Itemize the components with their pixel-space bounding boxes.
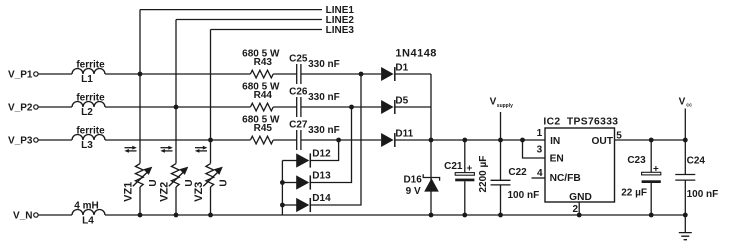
svg-text:LINE3: LINE3 xyxy=(326,25,355,36)
capacitor C25 330 nF xyxy=(289,53,340,84)
wire D12-D14 anode bus xyxy=(281,161,283,216)
junction bus3/V_P3 xyxy=(208,138,213,143)
svg-text:OUT: OUT xyxy=(591,136,613,147)
capacitor C26 330 nF xyxy=(289,86,340,117)
junction C21/V_N xyxy=(462,213,467,218)
terminal V_P3 xyxy=(34,138,38,142)
svg-text:22 µF: 22 µF xyxy=(621,187,647,198)
svg-text:4: 4 xyxy=(537,168,543,179)
wire V_supply tick xyxy=(500,112,502,140)
svg-text:C23: C23 xyxy=(627,155,646,166)
wire LINE2 horizontal xyxy=(176,19,322,21)
svg-text:ferrite: ferrite xyxy=(76,92,105,103)
IC IC2 TPS76333 xyxy=(543,116,618,202)
svg-text:D12: D12 xyxy=(312,149,331,160)
svg-text:IN: IN xyxy=(550,136,560,147)
svg-text:R45: R45 xyxy=(254,123,273,134)
wire D14 cathode to row1 xyxy=(310,74,361,205)
wire D5 cathode xyxy=(395,106,431,108)
wire LINE3 horizontal xyxy=(211,29,323,31)
resistor R43 xyxy=(250,70,273,78)
svg-text:EN: EN xyxy=(550,153,564,164)
bidirectional arrows VZ3 xyxy=(195,146,207,153)
varistor VZ1 xyxy=(123,164,159,202)
inductor L4 4 mH xyxy=(72,210,105,215)
bidirectional arrows VZ2 xyxy=(160,146,172,153)
svg-text:100 nF: 100 nF xyxy=(687,189,719,200)
wire V_N to L4 xyxy=(38,214,72,216)
varistor VZ3 xyxy=(193,164,229,202)
wire V_P2 to L2 xyxy=(38,106,72,108)
wire bus LINE1 vertical xyxy=(139,10,141,215)
svg-text:4 mH: 4 mH xyxy=(74,200,98,211)
junction GND/V_N xyxy=(577,213,582,218)
svg-text:330 nF: 330 nF xyxy=(308,92,340,103)
junction anode bus/D13 xyxy=(280,180,285,185)
junction row3/D12 tap xyxy=(336,138,341,143)
capacitor C27 330 nF xyxy=(289,119,340,150)
wire C25 to D1 xyxy=(301,73,381,75)
wire NC/FB stub xyxy=(532,177,546,179)
wire rectifier cathode bus vertical xyxy=(430,74,432,215)
svg-text:VZ1: VZ1 xyxy=(123,182,135,202)
junction C23/V_N xyxy=(649,213,654,218)
junction row1/D14 tap xyxy=(359,72,364,77)
svg-text:9 V: 9 V xyxy=(406,186,421,197)
svg-text:supply: supply xyxy=(497,103,513,109)
junction anode bus/D14 xyxy=(280,203,285,208)
varistor VZ2 xyxy=(159,164,195,202)
wire D1 cathode xyxy=(395,73,431,75)
wire bus LINE2 vertical xyxy=(175,20,177,216)
diode D5 xyxy=(381,96,409,115)
svg-text:330 nF: 330 nF xyxy=(308,59,340,70)
svg-text:ferrite: ferrite xyxy=(76,59,105,70)
svg-text:D5: D5 xyxy=(395,96,408,107)
junction cathode bus/rail xyxy=(429,138,434,143)
wire C26 to D5 xyxy=(301,106,381,108)
svg-text:VZ2: VZ2 xyxy=(159,182,171,202)
junction row2/D13 tap xyxy=(349,105,354,110)
wire L2 to R44 xyxy=(105,106,250,108)
inductor L2 ferrite xyxy=(72,102,105,108)
junction rail/C21 xyxy=(462,138,467,143)
wire V_cc tick xyxy=(684,109,686,141)
svg-text:V_P2: V_P2 xyxy=(8,102,33,113)
svg-text:D11: D11 xyxy=(395,129,413,140)
svg-text:C24: C24 xyxy=(687,155,706,166)
junction rail/V_supply-C22 xyxy=(498,138,503,143)
capacitor C21 2200 uF xyxy=(444,140,489,215)
resistor R44 xyxy=(250,103,273,111)
svg-text:C21: C21 xyxy=(444,161,463,172)
wire D13 cathode to row2 xyxy=(310,107,351,183)
svg-text:NC/FB: NC/FB xyxy=(550,173,581,184)
svg-text:D14: D14 xyxy=(312,193,331,204)
terminal V_P1 xyxy=(34,72,38,76)
wire OUT rail xyxy=(615,139,686,141)
svg-text:C25: C25 xyxy=(289,53,308,64)
svg-text:V_P3: V_P3 xyxy=(8,135,33,146)
svg-text:U: U xyxy=(218,179,229,186)
svg-text:ferrite: ferrite xyxy=(76,125,105,136)
junction OUT/C23 xyxy=(649,138,654,143)
svg-text:GND: GND xyxy=(569,192,592,203)
junction bus2/V_P2 xyxy=(174,105,179,110)
terminal V_N xyxy=(34,213,38,217)
terminal V_P2 xyxy=(34,105,38,109)
node V_cc label xyxy=(679,97,692,109)
svg-text:L4: L4 xyxy=(82,216,94,227)
inductor L3 ferrite xyxy=(72,135,105,141)
wire R44 to C26 xyxy=(273,106,297,108)
svg-text:100 nF: 100 nF xyxy=(508,190,540,201)
junction OUT/C24 xyxy=(683,138,688,143)
inductor L1 ferrite xyxy=(72,69,105,75)
svg-text:V_P1: V_P1 xyxy=(8,69,33,80)
wire V_P1 to L1 xyxy=(38,73,72,75)
diode D12 xyxy=(282,149,331,168)
svg-text:U: U xyxy=(148,179,159,186)
wire V_P3 to L3 xyxy=(38,139,72,141)
junction rail/EN xyxy=(520,138,525,143)
svg-text:V: V xyxy=(679,97,686,108)
wire D12 cathode to row3 xyxy=(310,140,338,161)
svg-text:IC2 TPS76333: IC2 TPS76333 xyxy=(543,116,618,127)
svg-text:cc: cc xyxy=(686,103,692,109)
diode D14 xyxy=(282,193,331,212)
wire V_N bottom rail xyxy=(105,214,685,216)
junction C22/V_N xyxy=(498,213,503,218)
wire GND pin xyxy=(578,202,580,215)
diode D11 xyxy=(381,129,414,148)
svg-text:C22: C22 xyxy=(508,167,527,178)
diode D13 xyxy=(282,171,331,190)
svg-text:V_N: V_N xyxy=(13,210,32,221)
junction bus3/V_N xyxy=(208,213,213,218)
svg-text:R43: R43 xyxy=(254,57,273,68)
svg-text:C27: C27 xyxy=(289,119,308,130)
junction cathode bus/V_N xyxy=(429,213,434,218)
wire bus LINE3 vertical xyxy=(210,30,212,216)
svg-text:V: V xyxy=(490,97,497,108)
capacitor C23 22 uF xyxy=(621,140,661,215)
diode D1 1N4148 xyxy=(381,48,437,81)
svg-text:1: 1 xyxy=(537,128,543,139)
svg-text:D16: D16 xyxy=(403,175,422,186)
wire R43 to C25 xyxy=(273,73,297,75)
capacitor C24 100 nF xyxy=(675,140,718,215)
svg-text:VZ3: VZ3 xyxy=(193,182,205,202)
svg-text:3: 3 xyxy=(537,144,543,155)
svg-text:D13: D13 xyxy=(312,171,331,182)
wire LINE1 horizontal xyxy=(140,9,322,11)
svg-text:1N4148: 1N4148 xyxy=(395,48,437,60)
zener diode D16 9 V xyxy=(403,174,439,197)
wire D11 cathode / V_supply rail xyxy=(395,139,545,141)
junction bus1/V_P1 xyxy=(138,72,143,77)
svg-text:2200 µF: 2200 µF xyxy=(478,156,489,193)
svg-text:L2: L2 xyxy=(81,107,93,118)
svg-text:330 nF: 330 nF xyxy=(308,125,340,136)
resistor R45 xyxy=(250,136,273,144)
junction bus1/V_N xyxy=(138,213,143,218)
svg-text:D1: D1 xyxy=(395,63,408,74)
svg-text:C26: C26 xyxy=(289,86,308,97)
wire L3 to R45 xyxy=(105,139,250,141)
capacitor C22 100 nF xyxy=(491,140,540,215)
wire R45 to C27 xyxy=(273,139,297,141)
junction C24/V_N/ground xyxy=(683,213,688,218)
ground xyxy=(679,215,692,240)
wire EN pin to rail xyxy=(523,140,546,158)
junction bus2/V_N xyxy=(174,213,179,218)
svg-text:R44: R44 xyxy=(254,90,273,101)
bidirectional arrows VZ1 xyxy=(124,146,136,153)
svg-text:L1: L1 xyxy=(81,74,93,85)
svg-text:L3: L3 xyxy=(81,140,93,151)
wire L1 to R43 xyxy=(105,73,250,75)
node V_supply label xyxy=(490,97,514,109)
wire C27 to D11 xyxy=(301,139,381,141)
